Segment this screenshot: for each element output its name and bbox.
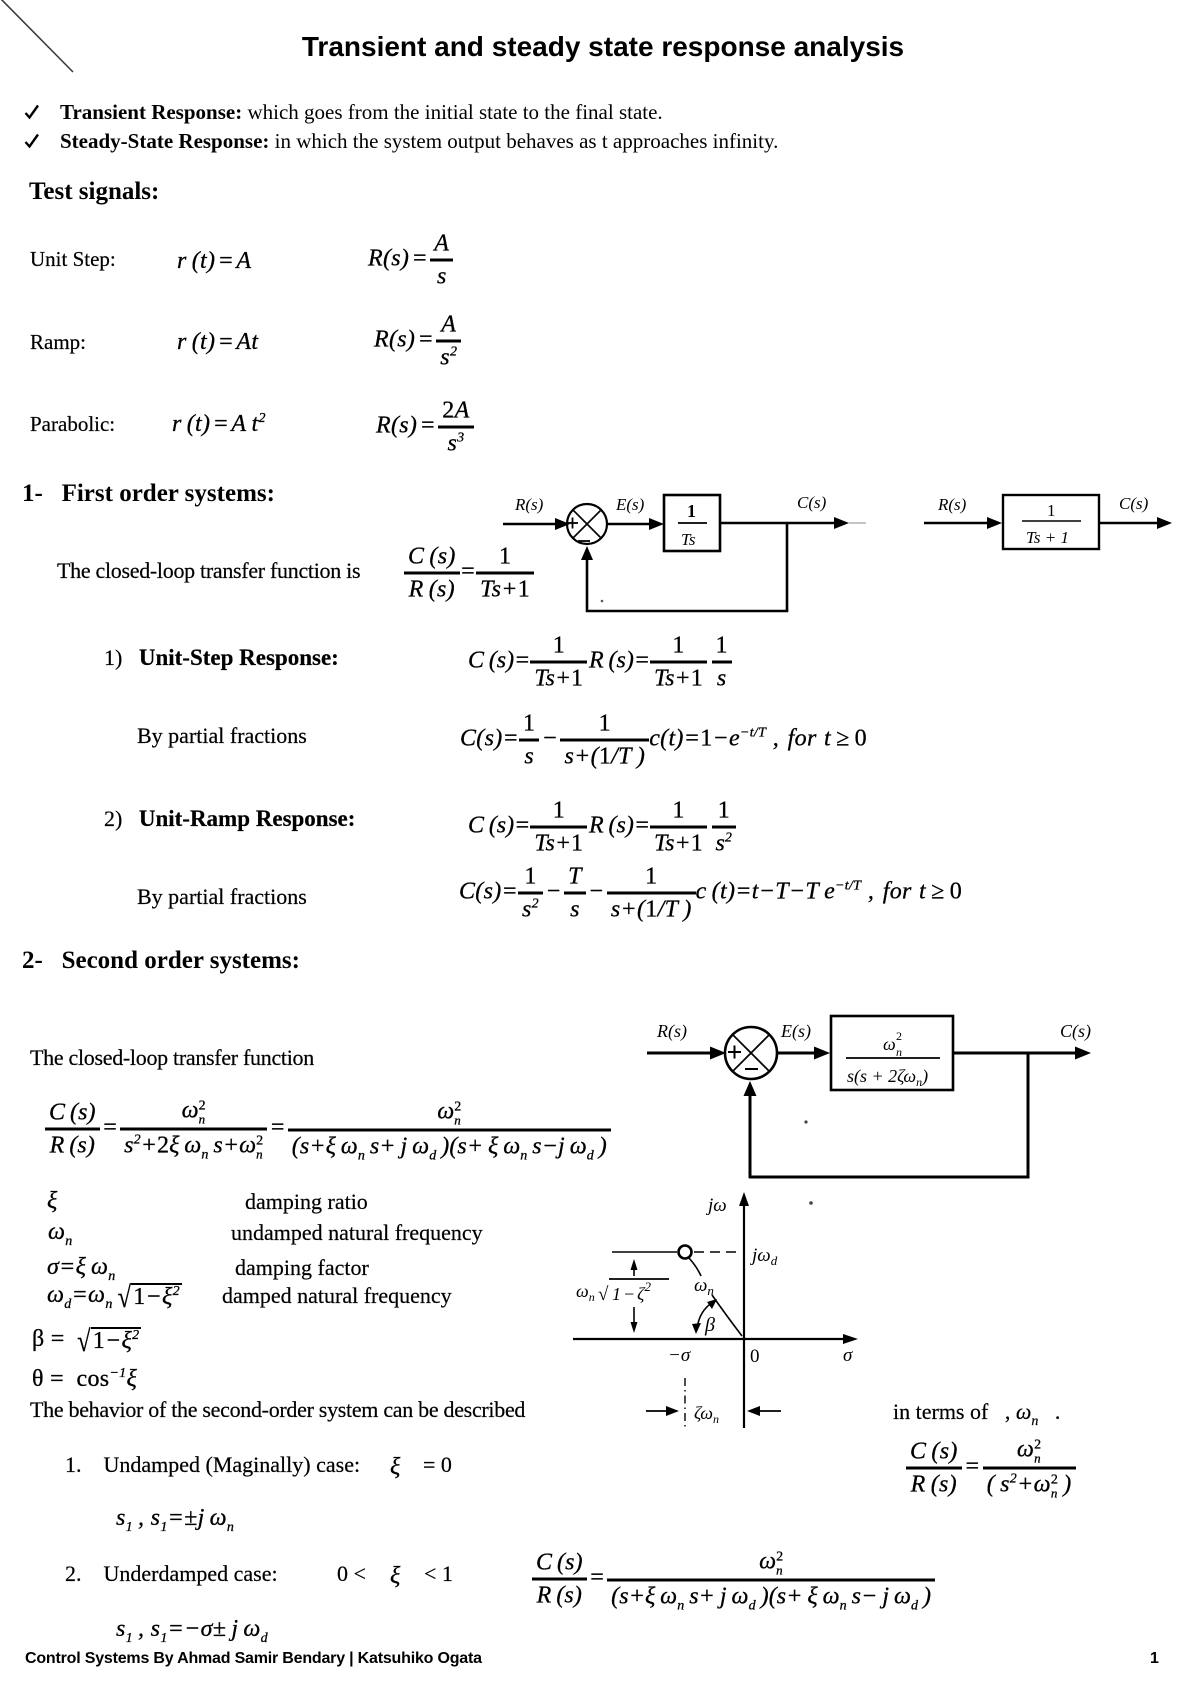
- bullet 2 check: [24, 133, 40, 149]
- svg-text:σ: σ: [843, 1345, 853, 1366]
- first-order feedback block diagram: [495, 483, 880, 623]
- wire: junction to block: [777, 1052, 818, 1055]
- big transfer function: [45, 1099, 611, 1160]
- by partial fractions 2: [137, 884, 307, 910]
- wire: input to summing junction: [647, 1052, 713, 1055]
- wire: block to output: [720, 522, 838, 525]
- line through pole: [612, 1251, 677, 1253]
- block wn^2/(s(s+2zwn)): [831, 1016, 953, 1090]
- row: Parabolic: [30, 412, 115, 437]
- minus sign: [578, 540, 590, 542]
- beta angle arc: [697, 1302, 713, 1329]
- svg-text:1: 1: [1047, 501, 1056, 520]
- svg-text:β: β: [704, 1314, 715, 1336]
- svg-text:s(s + 2ζωn): s(s + 2ζωn): [847, 1066, 928, 1089]
- row: Ramp: [30, 330, 86, 355]
- svg-text:E(s): E(s): [615, 495, 645, 514]
- svg-text:ωn: ωn: [694, 1275, 714, 1298]
- svg-text:1−ζ2: 1−ζ2: [612, 1279, 651, 1304]
- svg-text:√: √: [598, 1284, 609, 1305]
- svg-text:1: 1: [687, 501, 696, 521]
- heading: first order systems: [22, 480, 275, 508]
- svg-text:E(s): E(s): [780, 1021, 811, 1042]
- heading: second order systems: [22, 947, 300, 975]
- by partial fractions 1: [137, 723, 307, 749]
- greek list: [47, 1189, 58, 1213]
- svg-text:jω: jω: [705, 1195, 727, 1216]
- wire: input arrow: [924, 522, 989, 525]
- dimension arrow left: [755, 1410, 781, 1412]
- svg-text:ω: ω: [883, 1034, 896, 1054]
- heading: Test signals: [29, 178, 159, 206]
- svg-text:Ts + 1: Ts + 1: [1026, 528, 1069, 547]
- pole: [679, 1246, 692, 1259]
- speck: [601, 600, 604, 603]
- svg-text:0: 0: [750, 1346, 760, 1367]
- dimension arrow right: [646, 1410, 671, 1412]
- block 1/(Ts+1): [1003, 495, 1099, 549]
- svg-text:C(s): C(s): [797, 493, 827, 512]
- behavior line: [30, 1397, 525, 1423]
- svg-text:−σ: −σ: [668, 1345, 691, 1366]
- s-plane pole diagram: [565, 1185, 885, 1435]
- svg-text:n: n: [896, 1045, 902, 1059]
- svg-text:ζωn: ζωn: [694, 1403, 719, 1426]
- item 2) Unit-Ramp Response: [104, 806, 355, 832]
- svg-text:R(s): R(s): [937, 495, 967, 514]
- svg-text:ωn: ωn: [576, 1281, 595, 1304]
- summing junction: [725, 1027, 777, 1079]
- minus sign: [745, 1068, 758, 1070]
- plus sign: [567, 522, 578, 524]
- second-order feedback block diagram: [635, 1008, 1115, 1210]
- sigma axis: [573, 1338, 846, 1340]
- item 1) Unit-Step Response: [104, 645, 339, 671]
- row: Unit Step: [30, 247, 116, 272]
- svg-text:C(s): C(s): [1119, 494, 1149, 513]
- wire: block to output: [953, 1052, 1078, 1055]
- summing junction: [567, 504, 607, 544]
- plus sign: [728, 1051, 741, 1053]
- bullet 1 check: [24, 104, 40, 120]
- svg-text:Ts: Ts: [681, 530, 696, 549]
- svg-text:R(s): R(s): [514, 495, 544, 514]
- svg-text:R(s): R(s): [656, 1021, 687, 1042]
- svg-text:2: 2: [896, 1029, 902, 1043]
- list 1. undamped: [65, 1452, 360, 1478]
- dimension arrows (vertical): [633, 1263, 635, 1276]
- hypotenuse: [689, 1258, 701, 1276]
- svg-text:jωd: jωd: [749, 1245, 778, 1268]
- wire: junction to block: [607, 523, 653, 526]
- dashed line pole to axis: [694, 1251, 741, 1253]
- speck: [804, 1120, 807, 1123]
- corner mark: [0, 0, 90, 90]
- closed-loop line: [57, 558, 360, 584]
- block 1/Ts: [664, 495, 720, 551]
- first-order equivalent block diagram: [918, 483, 1180, 573]
- wire: input to summing junction: [503, 523, 557, 526]
- wire: feedback path: [1027, 1052, 1030, 1177]
- svg-text:C(s): C(s): [1060, 1021, 1091, 1042]
- title: [302, 31, 904, 63]
- wire: feedback path: [786, 522, 789, 611]
- footer: [25, 1650, 482, 1668]
- list 2. underdamped: [65, 1561, 278, 1587]
- undamped formula (right): [906, 1438, 1076, 1499]
- closed-loop line 2: [30, 1045, 314, 1071]
- dash-dot line below pole: [684, 1378, 686, 1427]
- speck: [809, 1201, 813, 1205]
- jw axis: [743, 1200, 745, 1428]
- wire: output arrow: [1099, 522, 1160, 525]
